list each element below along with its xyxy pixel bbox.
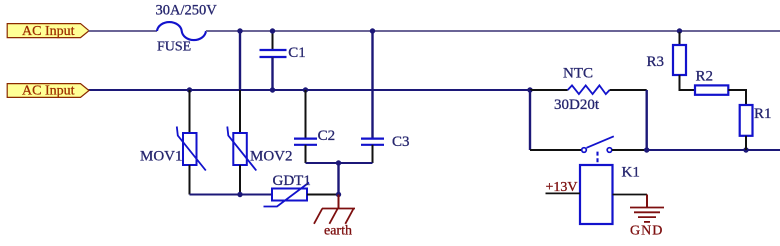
wire MOV bottom bus bbox=[190, 194, 273, 196]
svg-text:MOV2: MOV2 bbox=[250, 149, 293, 165]
gas discharge tube GDT1 bbox=[264, 173, 311, 207]
thermistor NTC 30D20 bbox=[530, 66, 647, 114]
wire GDT1 to earth node bbox=[307, 194, 339, 196]
wire bottom rail right bbox=[647, 149, 780, 151]
svg-text:K1: K1 bbox=[622, 165, 640, 181]
node dot rail L / MOV2 bbox=[237, 28, 242, 33]
capacitor C3 bbox=[361, 32, 410, 163]
svg-text:C3: C3 bbox=[392, 134, 410, 150]
wire bottom rail left of switch bbox=[530, 149, 582, 151]
node dot rail N / C2 bbox=[303, 87, 308, 92]
wire rail L from fuse to right edge bbox=[206, 30, 780, 32]
svg-text:AC Input: AC Input bbox=[22, 84, 75, 99]
wire relay branch drop bbox=[529, 90, 531, 150]
varistor MOV1 bbox=[140, 90, 206, 195]
node dot C bus bbox=[336, 160, 341, 165]
svg-text:MOV1: MOV1 bbox=[140, 149, 183, 165]
svg-text:30A/250V: 30A/250V bbox=[156, 3, 218, 19]
relay coil K1 bbox=[580, 165, 640, 225]
svg-text:NTC: NTC bbox=[563, 66, 593, 82]
capacitor C1 bbox=[260, 32, 306, 89]
earth ground symbol bbox=[314, 195, 355, 239]
GND ground symbol bbox=[630, 195, 664, 239]
svg-text:R2: R2 bbox=[696, 69, 714, 85]
wire C2-C3 bottom bus bbox=[306, 162, 373, 164]
wire C bus down to earth node bbox=[337, 163, 339, 195]
node dot rail N / MOV1 bbox=[187, 87, 192, 92]
node dot rail L / C1 bbox=[270, 28, 275, 33]
svg-text:AC Input: AC Input bbox=[22, 24, 75, 39]
AC input callout bottom (N) bbox=[7, 84, 89, 99]
node dot NTC / bottom rail bbox=[644, 147, 649, 152]
wire NTC right drop bbox=[646, 90, 648, 150]
node dot earth junction bbox=[336, 192, 341, 197]
wire rail L from callout to fuse bbox=[89, 30, 158, 32]
+13V supply label and wire bbox=[546, 180, 581, 195]
node dot rail N / relay branch bbox=[527, 87, 532, 92]
svg-text:earth: earth bbox=[324, 224, 352, 239]
wire relay to GND bbox=[613, 194, 648, 196]
wire between switch and NTC node bbox=[612, 149, 647, 151]
node dot rail L / R3 bbox=[677, 28, 682, 33]
node dot rail L / C3 bbox=[370, 28, 375, 33]
svg-text:R3: R3 bbox=[647, 54, 665, 70]
svg-text:30D20t: 30D20t bbox=[554, 97, 600, 113]
node dot R1 / bottom rail bbox=[743, 147, 748, 152]
svg-text:C1: C1 bbox=[288, 45, 306, 61]
node dot rail N / C1 bbox=[270, 87, 275, 92]
AC input callout top (L) bbox=[7, 24, 89, 39]
resistor R3 bbox=[647, 32, 696, 90]
svg-text:C2: C2 bbox=[318, 128, 336, 144]
fuse FUSE 30A/250V bbox=[156, 3, 218, 55]
resistor R1 bbox=[740, 105, 772, 150]
node dot MOV bus bbox=[237, 192, 242, 197]
svg-text:FUSE: FUSE bbox=[157, 40, 191, 55]
resistor R2 bbox=[695, 69, 746, 106]
svg-text:GND: GND bbox=[630, 224, 663, 239]
svg-text:GDT1: GDT1 bbox=[273, 173, 311, 189]
varistor MOV2 bbox=[227, 32, 292, 195]
capacitor C2 bbox=[294, 90, 335, 163]
wire rail N from callout to NTC corner bbox=[89, 89, 531, 91]
svg-text:R1: R1 bbox=[754, 106, 772, 122]
relay switch contact K1 bbox=[582, 136, 614, 165]
